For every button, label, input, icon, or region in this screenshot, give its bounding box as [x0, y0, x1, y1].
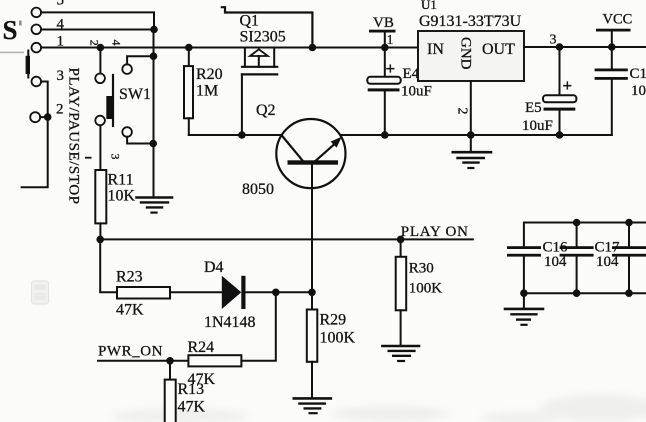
svg-text:Q1: Q1	[240, 13, 260, 30]
wire R20 bottom lead	[188, 118, 190, 135]
wire bottom rail right segment	[340, 134, 612, 136]
svg-text:G9131-33T73U: G9131-33T73U	[419, 13, 522, 30]
node R30 / PLAY_ON	[397, 236, 405, 244]
svg-text:10uF: 10uF	[401, 84, 432, 100]
node VCC / OUT line	[608, 43, 616, 51]
svg-text:SW1: SW1	[119, 86, 151, 103]
connector J pin 2 circle	[30, 112, 40, 122]
wire Q1 gate lead	[241, 74, 243, 135]
switch SW1 terminal TR	[122, 64, 132, 74]
node SW1 TR junction	[150, 52, 158, 60]
node GND / bottom rail	[467, 131, 475, 139]
wire C16 block bottom rail	[524, 292, 646, 294]
ground G5 under R29 (dashed)	[294, 398, 331, 413]
svg-text:Q2: Q2	[256, 102, 276, 119]
connector J pin 5 circle	[32, 8, 42, 18]
node R11 / PLAY_ON	[96, 236, 104, 244]
svg-text:2: 2	[455, 108, 470, 115]
wire PLAY_ON line	[100, 238, 473, 240]
wire C18 bottom lead	[611, 80, 613, 135]
wire R24 to D4 node	[241, 292, 275, 361]
resistor R20	[184, 66, 193, 118]
connector J pin 1 circle	[32, 43, 42, 53]
svg-text:VB: VB	[373, 15, 394, 31]
wire pin2/pin3 stub down-left	[22, 117, 48, 187]
node SW1 BR junction	[149, 140, 157, 148]
wire SW1 TR to vertical	[127, 56, 153, 64]
connector J pin 3 circle	[32, 77, 42, 87]
wire bottom rail left segment	[189, 134, 282, 136]
power rail VB	[369, 15, 396, 48]
svg-text:1: 1	[387, 33, 394, 48]
node D4 / R24 junction	[272, 289, 280, 297]
node C17 bottom	[573, 289, 581, 297]
svg-text:IN: IN	[427, 41, 444, 58]
capacitor E4	[367, 59, 400, 91]
svg-text:10K: 10K	[108, 188, 136, 205]
transistor Q1 MOSFET symbol	[242, 48, 277, 75]
wire E5 bottom lead	[559, 111, 561, 135]
svg-text:104: 104	[631, 83, 646, 99]
svg-text:3: 3	[550, 33, 557, 48]
wire Q2 base vertical	[311, 165, 313, 292]
wire E5 top lead	[559, 47, 561, 95]
resistor R29	[307, 310, 318, 362]
node C16 bottom	[520, 289, 528, 297]
svg-text:C18: C18	[630, 66, 646, 82]
capacitor C16	[507, 246, 541, 256]
svg-text:PLAY ON: PLAY ON	[401, 224, 469, 240]
svg-text:D4: D4	[204, 259, 224, 276]
capacitor E5	[543, 76, 576, 111]
svg-text:3: 3	[109, 154, 123, 160]
wire E4 bottom lead	[384, 91, 386, 135]
capacitor C17	[560, 223, 594, 294]
wire regulator GND pin	[470, 81, 472, 135]
wire D4 cathode line	[246, 291, 314, 293]
wire R23 to D4	[170, 291, 222, 293]
svg-text:+: +	[386, 59, 396, 78]
watermark S logo	[3, 15, 22, 45]
svg-text:OUT: OUT	[482, 41, 515, 58]
wire C18 top lead	[611, 47, 613, 69]
svg-text:100K: 100K	[320, 330, 356, 347]
svg-text:8050: 8050	[242, 181, 274, 198]
resistor R23	[117, 287, 170, 299]
wire R29 bottom lead	[311, 362, 313, 398]
svg-text:E5: E5	[525, 100, 542, 116]
node pin2 junction	[44, 113, 52, 121]
wire Q1 bypass top	[222, 7, 313, 47]
diode D4	[222, 276, 246, 309]
wire C16 block top rail	[524, 223, 646, 247]
svg-text:PWR_ON: PWR_ON	[98, 344, 163, 360]
watermark underline	[0, 52, 24, 54]
watermark bottom smudges	[110, 394, 646, 422]
wire pin4 line	[41, 29, 154, 31]
node cap3 bottom	[625, 289, 633, 297]
svg-text:R30: R30	[409, 261, 434, 277]
ground G3 under R30	[382, 346, 419, 361]
switch SW1 actuator	[106, 75, 113, 126]
ground G1 under SW1	[137, 198, 173, 213]
resistor R13 (cut at bottom)	[165, 380, 176, 422]
transistor Q2	[276, 119, 345, 188]
wire pin3 to vertical	[41, 82, 48, 118]
wire R30 top lead	[400, 239, 402, 256]
power rail VCC	[596, 12, 632, 48]
node R13 / PWR_ON	[166, 357, 174, 365]
svg-text:SI2305: SI2305	[240, 29, 286, 46]
svg-text:GND: GND	[458, 37, 474, 70]
wire SW1 BL to R11	[99, 125, 101, 170]
switch SW1 terminal BR	[122, 127, 132, 137]
wire OUT line	[524, 46, 646, 48]
node Q1 drain / main line	[309, 44, 317, 52]
node E5 / OUT line	[556, 43, 564, 51]
svg-text:10uF: 10uF	[522, 118, 553, 134]
ground G2 regulator	[453, 135, 491, 168]
svg-text:R13: R13	[178, 381, 205, 398]
node Q1 gate / rail	[238, 131, 246, 139]
svg-text:S: S	[3, 15, 18, 45]
wire E4 top lead	[384, 48, 386, 78]
wire right vertical x153.5	[153, 30, 155, 197]
svg-text:4: 4	[110, 40, 124, 46]
connector key bar	[26, 51, 30, 78]
wire C16 bottom lead	[523, 257, 525, 294]
watermark floppy icon	[32, 281, 49, 304]
svg-text:R23: R23	[116, 269, 143, 286]
wire R29 top lead	[311, 292, 313, 309]
wire pin5 to junction	[41, 12, 154, 29]
svg-text:1N4148: 1N4148	[204, 314, 256, 331]
svg-text:5: 5	[57, 0, 65, 9]
svg-text:R24: R24	[188, 339, 215, 356]
svg-text:VCC: VCC	[603, 12, 633, 28]
wire R20 top lead	[188, 48, 190, 67]
svg-text:+: +	[563, 76, 573, 95]
ground G4 under C16	[505, 293, 543, 325]
resistor R24	[188, 355, 241, 366]
wire R13 top lead	[169, 361, 171, 380]
resistor R20 top node	[185, 44, 193, 52]
resistor R11	[95, 170, 106, 223]
wire PWR_ON line	[98, 360, 188, 362]
regulator U1 G9131-33T73U	[418, 13, 524, 81]
pin label 1 (rotated, dash)	[85, 157, 92, 159]
svg-text:2: 2	[88, 40, 102, 46]
svg-text:100K: 100K	[409, 281, 443, 297]
node SW1 top-left on main line	[97, 44, 105, 52]
wire R11 bottom lead	[99, 223, 101, 239]
node VB junction	[381, 44, 389, 52]
node E4 / bottom rail	[381, 131, 389, 139]
svg-text:U1: U1	[421, 0, 437, 12]
svg-text:1M: 1M	[196, 83, 218, 100]
node pin5/pin4 junction	[150, 26, 158, 34]
svg-text:2: 2	[56, 102, 64, 118]
svg-text:R20: R20	[196, 66, 223, 83]
node cap3 top	[625, 219, 633, 227]
svg-text:47K: 47K	[116, 302, 144, 319]
wire PLAY_ON down branch to R23	[100, 239, 117, 292]
wire SW1 TL stub	[99, 48, 101, 74]
switch SW1 terminal TL	[95, 74, 105, 84]
node base / R29 junction	[308, 289, 316, 297]
wire SW1 BR to vertical	[127, 137, 153, 144]
svg-text:PLAY/PAUSE/STOP: PLAY/PAUSE/STOP	[66, 68, 83, 205]
wire pin2 lead	[40, 116, 48, 118]
switch SW1 terminal BL	[95, 116, 105, 126]
capacitor C18	[595, 69, 628, 80]
svg-text:3: 3	[57, 68, 65, 84]
wire main top line pin1 to regulator IN	[41, 47, 418, 49]
node C17 top	[573, 219, 581, 227]
resistor R30	[396, 257, 407, 311]
wire R30 bottom lead	[400, 310, 402, 345]
capacitor C19 (cut)	[612, 223, 646, 294]
node E5 / bottom rail	[556, 131, 564, 139]
svg-text:R29: R29	[320, 312, 347, 329]
connector J pin 4 circle	[32, 25, 42, 35]
svg-text:R11: R11	[108, 172, 134, 189]
svg-text:47K: 47K	[178, 399, 206, 416]
